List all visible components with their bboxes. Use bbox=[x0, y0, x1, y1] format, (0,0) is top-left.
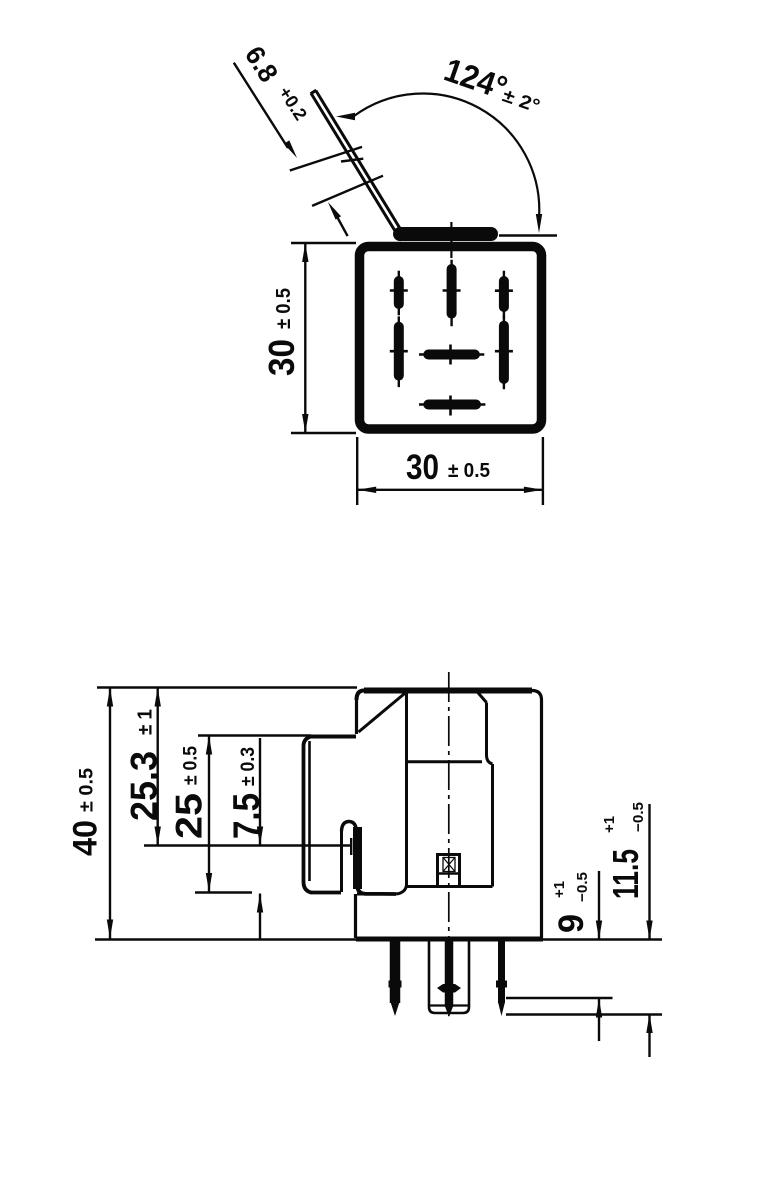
bracket outer left edge bbox=[304, 737, 342, 893]
svg-text:± 0.5: ± 0.5 bbox=[77, 768, 98, 812]
svg-text:40: 40 bbox=[67, 820, 105, 856]
6.8 extension tick middle bbox=[341, 159, 363, 162]
body left edge lower bbox=[354, 894, 357, 938]
svg-text:± 0.5: ± 0.5 bbox=[181, 746, 202, 785]
6.8 extension tick B bbox=[312, 176, 383, 206]
svg-text:30: 30 bbox=[261, 339, 302, 376]
30 bottom dimension line bbox=[357, 489, 543, 491]
body top-left corner bbox=[357, 691, 365, 701]
clip detail outer bbox=[438, 855, 460, 887]
30 left dimension: top extension line bbox=[291, 242, 356, 244]
svg-text:9: 9 bbox=[552, 914, 591, 933]
clip divider bbox=[437, 872, 461, 875]
6.8 lower arrow bbox=[335, 213, 348, 236]
clip inner box bbox=[443, 858, 455, 872]
bracket inner left edge bbox=[308, 741, 311, 881]
body left edge upper bbox=[355, 698, 358, 734]
svg-text:+1: +1 bbox=[601, 816, 618, 833]
svg-text:−0.5: −0.5 bbox=[574, 872, 591, 902]
40 dimension line bbox=[109, 688, 111, 939]
svg-text:25.3: 25.3 bbox=[124, 751, 165, 821]
30 left dimension line bbox=[304, 243, 306, 433]
inner horizontal H2 bbox=[407, 885, 493, 888]
11.5 dimension line bbox=[648, 804, 650, 939]
svg-text:30: 30 bbox=[406, 448, 439, 487]
bracket strap end cap bbox=[311, 90, 317, 94]
ground line bbox=[95, 938, 662, 941]
hook right limb (thick) bbox=[353, 827, 362, 889]
pin 2 (center, wide) outline bbox=[429, 940, 469, 1013]
25 dimension line bbox=[208, 736, 210, 893]
bracket-top extension line (25) bbox=[198, 734, 311, 736]
25.3 dimension line bbox=[156, 688, 158, 846]
notch chamfer bbox=[477, 691, 487, 703]
svg-text:7.5: 7.5 bbox=[226, 793, 267, 839]
hook extension line (25.3 / 7.5) bbox=[144, 844, 351, 846]
9 dimension line bbox=[598, 871, 600, 939]
pin 2 inner line bbox=[430, 1004, 468, 1006]
inner vertical line V1 bbox=[396, 692, 407, 894]
center line (dash-dot) bbox=[448, 672, 450, 1016]
top extension line (40 / 25.3) bbox=[97, 686, 357, 688]
svg-text:25: 25 bbox=[169, 793, 210, 839]
terminal slot mid-center horizontal bbox=[428, 350, 475, 360]
pin length extension line 2 bbox=[506, 1013, 662, 1015]
terminal slot top-center bbox=[447, 269, 457, 314]
30 bottom dimension: left extension line bbox=[356, 437, 358, 505]
angle arc 124 deg bbox=[354, 94, 539, 218]
hook left limb bbox=[340, 830, 343, 892]
hook arch bbox=[342, 822, 357, 834]
svg-text:+1: +1 bbox=[551, 881, 568, 898]
inner vertical V3 bbox=[491, 764, 494, 887]
6.8 extension tick A bbox=[290, 147, 362, 171]
pin 2 conductor bbox=[445, 940, 454, 1007]
notch vertical V2 with jog bbox=[487, 703, 493, 765]
30 bottom dimension: right extension line bbox=[542, 437, 544, 505]
label 25.3 bbox=[124, 709, 165, 821]
relay body outline (top view square) bbox=[360, 247, 542, 430]
svg-text:−0.5: −0.5 bbox=[630, 802, 647, 832]
pin 1 (left) bbox=[390, 940, 401, 1003]
bracket foot bar (top view) bbox=[400, 227, 491, 241]
label 40 bbox=[67, 768, 105, 856]
30 left dimension: bottom extension line bbox=[291, 432, 356, 434]
clip inner diagonal bbox=[444, 858, 455, 871]
7.5 dimension line lower bbox=[259, 894, 261, 940]
arc arrowhead right bbox=[536, 214, 542, 233]
svg-text:± 0.5: ± 0.5 bbox=[273, 288, 295, 329]
pin 2 crimp diamond bbox=[437, 984, 461, 993]
label 6.8 +0.2 bbox=[239, 41, 311, 129]
label 7.5 bbox=[226, 747, 267, 839]
mounting bracket top edge bbox=[311, 735, 356, 739]
hook bottom bend bbox=[357, 885, 396, 894]
label 30 left bbox=[261, 288, 302, 376]
terminal slot mid-left bbox=[394, 327, 404, 376]
inner lower-left line to hook bbox=[357, 893, 396, 896]
bracket-bottom extension line bbox=[195, 891, 252, 893]
bracket strap inner line bbox=[316, 91, 401, 230]
angle extension line (right of bracket foot) bbox=[499, 234, 557, 236]
svg-text:± 0.3: ± 0.3 bbox=[238, 747, 259, 786]
terminal slot top-right bbox=[499, 281, 509, 307]
7.5 dimension line upper bbox=[259, 738, 261, 846]
label 25 bbox=[169, 746, 210, 839]
label 124 deg bbox=[440, 51, 548, 119]
body top-right corner and right edge bbox=[532, 691, 542, 939]
centerline tick at top of square bbox=[450, 222, 452, 258]
bracket strap outer line bbox=[311, 93, 401, 239]
label 11.5 bbox=[601, 802, 647, 899]
svg-text:± 1: ± 1 bbox=[135, 709, 157, 735]
chamfer top-left bbox=[359, 692, 408, 733]
body bottom thick segment bbox=[356, 937, 543, 942]
svg-text:± 0.5: ± 0.5 bbox=[448, 460, 490, 482]
pin length extension line 1 bbox=[506, 997, 613, 999]
terminal slot bottom-center horizontal bbox=[428, 400, 476, 410]
terminal slot mid-right bbox=[499, 326, 509, 379]
hook inner tick bbox=[350, 838, 352, 855]
label 9 bbox=[551, 872, 591, 933]
terminal slot top-left bbox=[394, 281, 404, 304]
svg-text:11.5: 11.5 bbox=[605, 849, 646, 899]
pin 3 (right) bbox=[498, 940, 505, 1003]
inner horizontal line H1 bbox=[407, 760, 483, 763]
arc arrowhead left bbox=[336, 113, 355, 120]
body top edge bbox=[364, 688, 532, 694]
6.8 dimension line with arrow bbox=[234, 63, 288, 148]
